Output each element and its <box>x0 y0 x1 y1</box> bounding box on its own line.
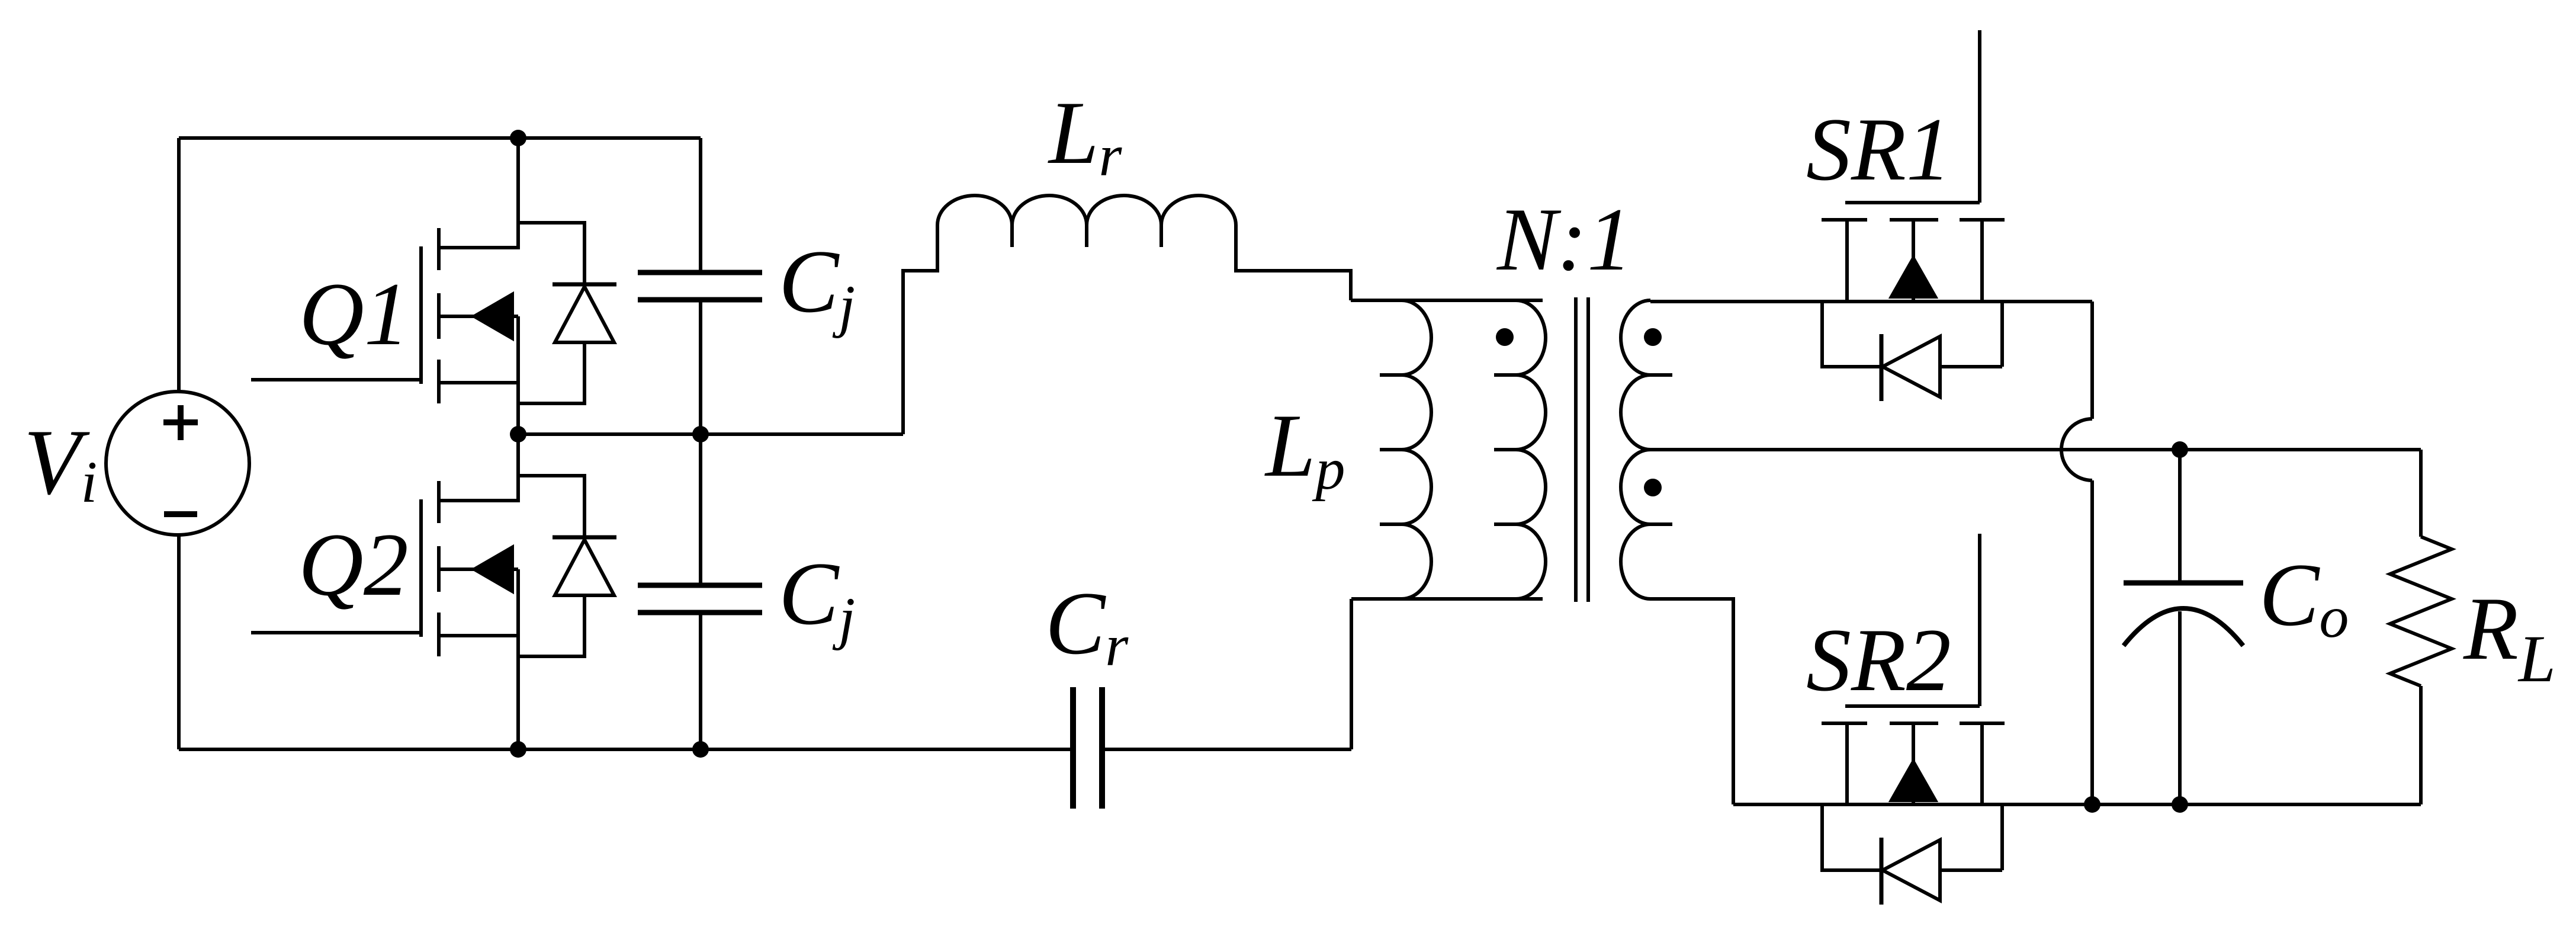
svg-text:Lr: Lr <box>1048 83 1123 188</box>
svg-text:Lp: Lp <box>1264 396 1345 502</box>
svg-text:SR2: SR2 <box>1806 610 1951 710</box>
svg-text:Cj: Cj <box>779 544 855 651</box>
transistor SR1 <box>1822 30 2005 302</box>
diode D3 (body diode of SR1) <box>1822 302 2002 401</box>
wire top rail <box>179 136 701 140</box>
capacitor Cj (upper) <box>638 138 762 434</box>
wire Lr to transformer <box>1236 225 1351 300</box>
inductor Lp <box>1402 300 1431 599</box>
node G (output bottom / SR1) <box>2084 796 2100 813</box>
svg-text:Cr: Cr <box>1045 573 1129 678</box>
capacitor Cj (lower) <box>638 434 762 749</box>
wire bottom rail right of Cr <box>1105 748 1351 751</box>
node A (top rail / Q1 drain) <box>510 130 526 146</box>
node B (midpoint Q1/Q2) <box>510 426 526 443</box>
wire secondary center tap / output top rail <box>1650 448 2421 451</box>
secondary polarity dot lower <box>1644 479 1662 496</box>
diode D2 (body diode of Q2) <box>518 476 616 656</box>
transformer secondary winding upper <box>1621 300 1650 450</box>
svg-text:Cj: Cj <box>779 232 855 339</box>
voltage source Vi <box>106 392 249 535</box>
node F (output top / Co) <box>2172 441 2188 458</box>
node D (bottom rail / Q2 source) <box>510 741 526 758</box>
inductor Lr <box>937 195 1236 225</box>
secondary polarity dot upper <box>1644 328 1662 346</box>
resistor RL <box>2390 450 2452 804</box>
svg-text:RL: RL <box>2463 579 2556 696</box>
capacitor Cr <box>1073 687 1102 809</box>
transistor SR2 <box>1822 534 2005 804</box>
wire secondary bottom lead <box>1650 599 1733 804</box>
svg-text:Vi: Vi <box>24 411 97 515</box>
wire primary top bus <box>1351 299 1543 302</box>
wire SR1 drain drop with crossover hop <box>2090 302 2094 419</box>
wire bottom rail left <box>179 748 1070 751</box>
node C (mid rail / Cj) <box>692 426 709 443</box>
svg-text:N:1: N:1 <box>1496 190 1632 289</box>
svg-text:SR1: SR1 <box>1806 100 1951 199</box>
wire midpoint rail <box>518 432 903 436</box>
wire hop <box>2061 419 2092 480</box>
wire left vertical bottom (Vi minus to rail) <box>177 535 181 749</box>
transformer core <box>1576 297 1588 602</box>
wire primary bottom to Cr rail <box>1350 599 1353 749</box>
node E (bottom rail / Cj) <box>692 741 709 758</box>
transistor Q2 <box>251 434 518 749</box>
wire step up to Lr <box>903 225 937 434</box>
diode D1 (body diode of Q1) <box>518 223 616 403</box>
wire SR1 drop lower <box>2090 480 2094 804</box>
capacitor Co <box>2124 450 2243 804</box>
wire left vertical (Vi plus terminal) <box>177 138 181 392</box>
primary polarity dot <box>1496 328 1514 346</box>
transformer secondary winding lower <box>1621 450 1650 599</box>
wire primary bottom bus <box>1351 597 1543 601</box>
diode D4 (body diode of SR2) <box>1822 804 2002 905</box>
wire SR2 source lead / output bottom rail <box>1733 803 2421 806</box>
transistor Q1 <box>251 138 518 434</box>
node H (output bottom / Co) <box>2172 796 2188 813</box>
svg-text:Q2: Q2 <box>298 515 409 614</box>
svg-text:Q1: Q1 <box>299 264 409 364</box>
transformer primary winding <box>1516 300 1546 599</box>
wire secondary top lead to SR1 <box>1650 300 2092 303</box>
svg-text:Co: Co <box>2259 545 2349 650</box>
